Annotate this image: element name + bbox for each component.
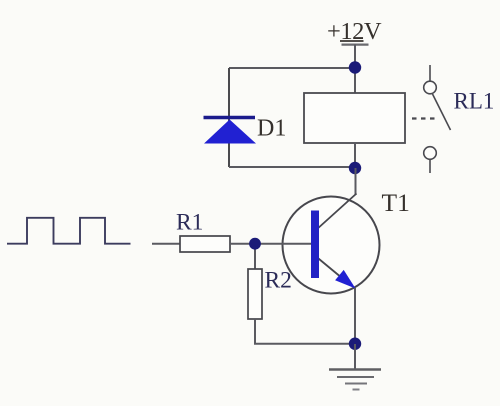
label RL1 — [454, 89, 495, 114]
ground — [329, 370, 381, 390]
relay contact RL1: top terminal circle — [424, 81, 437, 94]
relay contact RL1: bottom terminal circle — [424, 147, 437, 160]
wire node A to diode top (horizontal) — [229, 67, 355, 69]
relay contact RL1: top terminal stub — [429, 65, 431, 81]
wire node A to relay coil top — [354, 68, 356, 93]
wire diode branch left vertical — [228, 68, 230, 167]
label T1 — [382, 188, 410, 217]
wire node C to base — [255, 243, 311, 245]
svg-text:D1: D1 — [257, 116, 286, 142]
wire diode bottom to node B (horizontal) — [229, 166, 355, 168]
wire relay coil bottom to node B — [354, 143, 356, 168]
svg-text:R1: R1 — [176, 210, 203, 236]
power terminal bar +12V — [342, 43, 369, 45]
svg-text:T1: T1 — [382, 188, 410, 217]
wire node B to collector — [355, 168, 357, 195]
relay contact RL1: switch lever — [433, 94, 451, 130]
resistor R2 — [248, 269, 262, 319]
svg-text:R2: R2 — [265, 268, 292, 294]
wire input to resistor R1 — [152, 243, 180, 245]
node D (junction dot) — [349, 338, 361, 350]
wire node D to ground — [354, 344, 356, 369]
dashed actuation link to relay contact — [412, 117, 436, 119]
wire emitter to node D — [354, 288, 356, 344]
relay coil RL1 (rectangle) — [304, 93, 405, 143]
net +12V label — [327, 18, 382, 45]
node B (junction dot) — [349, 162, 361, 174]
wire R2 bottom leg — [255, 319, 355, 344]
input square-wave signal — [7, 218, 131, 244]
diode D1 — [204, 118, 257, 144]
wire R1 to node C — [230, 243, 255, 245]
label R1 — [176, 210, 203, 236]
transistor T1 (NPN) — [283, 194, 380, 294]
wire node C down to R2 — [254, 244, 256, 269]
node C (junction dot) — [249, 238, 261, 250]
relay contact RL1: bottom terminal stub — [429, 160, 431, 174]
wire from +12V bar to node A — [354, 45, 356, 69]
node A (junction dot) — [349, 61, 361, 73]
svg-text:RL1: RL1 — [454, 89, 495, 114]
label D1 — [257, 116, 286, 142]
resistor R1 — [180, 236, 230, 252]
label R2 — [265, 268, 292, 294]
